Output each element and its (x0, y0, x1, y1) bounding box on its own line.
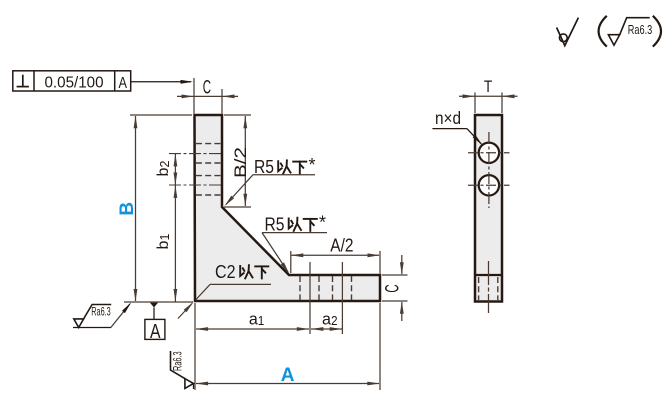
parenthesis left (599, 16, 607, 47)
chamfer corner arrow (178, 302, 194, 319)
fillet note R5 or less (upper): leader (224, 175, 315, 207)
dimension C right: dimension line with arrows (400, 255, 404, 321)
hidden hole lines, vertical leg (196, 144, 221, 195)
tolerance leader arrow (131, 80, 193, 84)
dimension B/2: dimension line (243, 116, 247, 206)
dimension C right: extension lines (382, 275, 408, 301)
dimension a1: dimension line (196, 327, 310, 331)
dimension A: dimension line (196, 382, 380, 386)
svg-text:Ra6.3: Ra6.3 (628, 22, 653, 37)
svg-text:b1: b1 (155, 234, 172, 250)
perpendicularity symbol (17, 75, 29, 87)
svg-text:Ra6.3: Ra6.3 (171, 351, 185, 371)
fillet note R5 or less (lower): text (265, 212, 327, 234)
dimension A/2: dimension line (291, 253, 380, 257)
svg-text:A: A (118, 75, 127, 92)
hole note n×d: leader (432, 129, 482, 146)
dimension T: dimension line with arrows (459, 94, 518, 98)
svg-text:T: T (484, 78, 492, 96)
dimension C top: dimension line with arrows (177, 95, 238, 99)
dimension b2: dimension line (174, 154, 178, 185)
datum A box (145, 319, 165, 339)
side view: bottom tapped hole hidden lines (479, 277, 498, 300)
surface finish Ra6.3 (bottom, rotated) (171, 351, 194, 389)
svg-text:A: A (281, 365, 295, 386)
dimension A/2: extension lines (291, 251, 380, 274)
svg-text:n×d: n×d (435, 108, 461, 128)
dimension a2: dimension line (311, 327, 342, 331)
surface finish Ra6.3 (left) leader arrow (111, 302, 132, 327)
datum A triangle (150, 303, 158, 308)
svg-text:R5: R5 (254, 157, 274, 177)
svg-text:R5: R5 (265, 214, 285, 234)
side view plate body (475, 115, 502, 302)
chamfer note C2 or less: leader (196, 284, 271, 299)
side view: leg surface line (475, 274, 502, 276)
svg-text:B/2: B/2 (231, 147, 250, 178)
side view: hole 1 circle (479, 143, 499, 163)
hole center/extension lines, horizontal leg (310, 262, 342, 334)
side view: bottom hole center line (488, 261, 490, 313)
fillet note R5 or less (upper): text (254, 155, 316, 177)
dimension b2: label (155, 161, 172, 177)
dimension C top: extension lines (194, 78, 222, 114)
surface roughness Ra6.3 symbol (reference) (608, 18, 652, 46)
svg-text:b2: b2 (155, 161, 172, 177)
svg-text:C2: C2 (215, 262, 236, 282)
dimension b1: dimension line (174, 185, 178, 302)
svg-text:A: A (150, 320, 161, 343)
parenthesis right (653, 16, 661, 47)
fillet note R5 or less (lower): leader (262, 233, 327, 274)
svg-text:Ra6.3: Ra6.3 (91, 305, 111, 319)
hole center lines, vertical leg (169, 154, 222, 185)
datum A stem (153, 308, 155, 320)
svg-text:*: * (319, 212, 326, 232)
hidden hole lines, horizontal leg (300, 276, 352, 300)
dimension T: extension lines (475, 93, 502, 114)
surface finish Ra6.3 (left) (73, 305, 111, 328)
dimension B/2: extension lines (224, 115, 251, 207)
side view: hole 2 circle (479, 175, 499, 195)
chamfer note C2 or less: text (215, 262, 268, 282)
svg-text:C: C (203, 78, 211, 99)
dimension b1: label (155, 234, 172, 250)
dimension A: extension lines (195, 303, 380, 390)
svg-text:A/2: A/2 (330, 236, 353, 256)
svg-text:*: * (309, 155, 316, 175)
surface symbol (no material removal, circle-check) (557, 18, 579, 46)
side view: hole center lines (468, 132, 510, 208)
svg-text:C: C (382, 284, 403, 292)
L-shaped angle plate outline (main view) (195, 115, 381, 301)
geometric tolerance frame (13, 71, 131, 91)
svg-text:B: B (117, 202, 138, 216)
dimension B: dimension line (134, 116, 138, 302)
svg-text:0.05/100: 0.05/100 (45, 75, 104, 92)
dimension B: extension lines (124, 115, 193, 302)
